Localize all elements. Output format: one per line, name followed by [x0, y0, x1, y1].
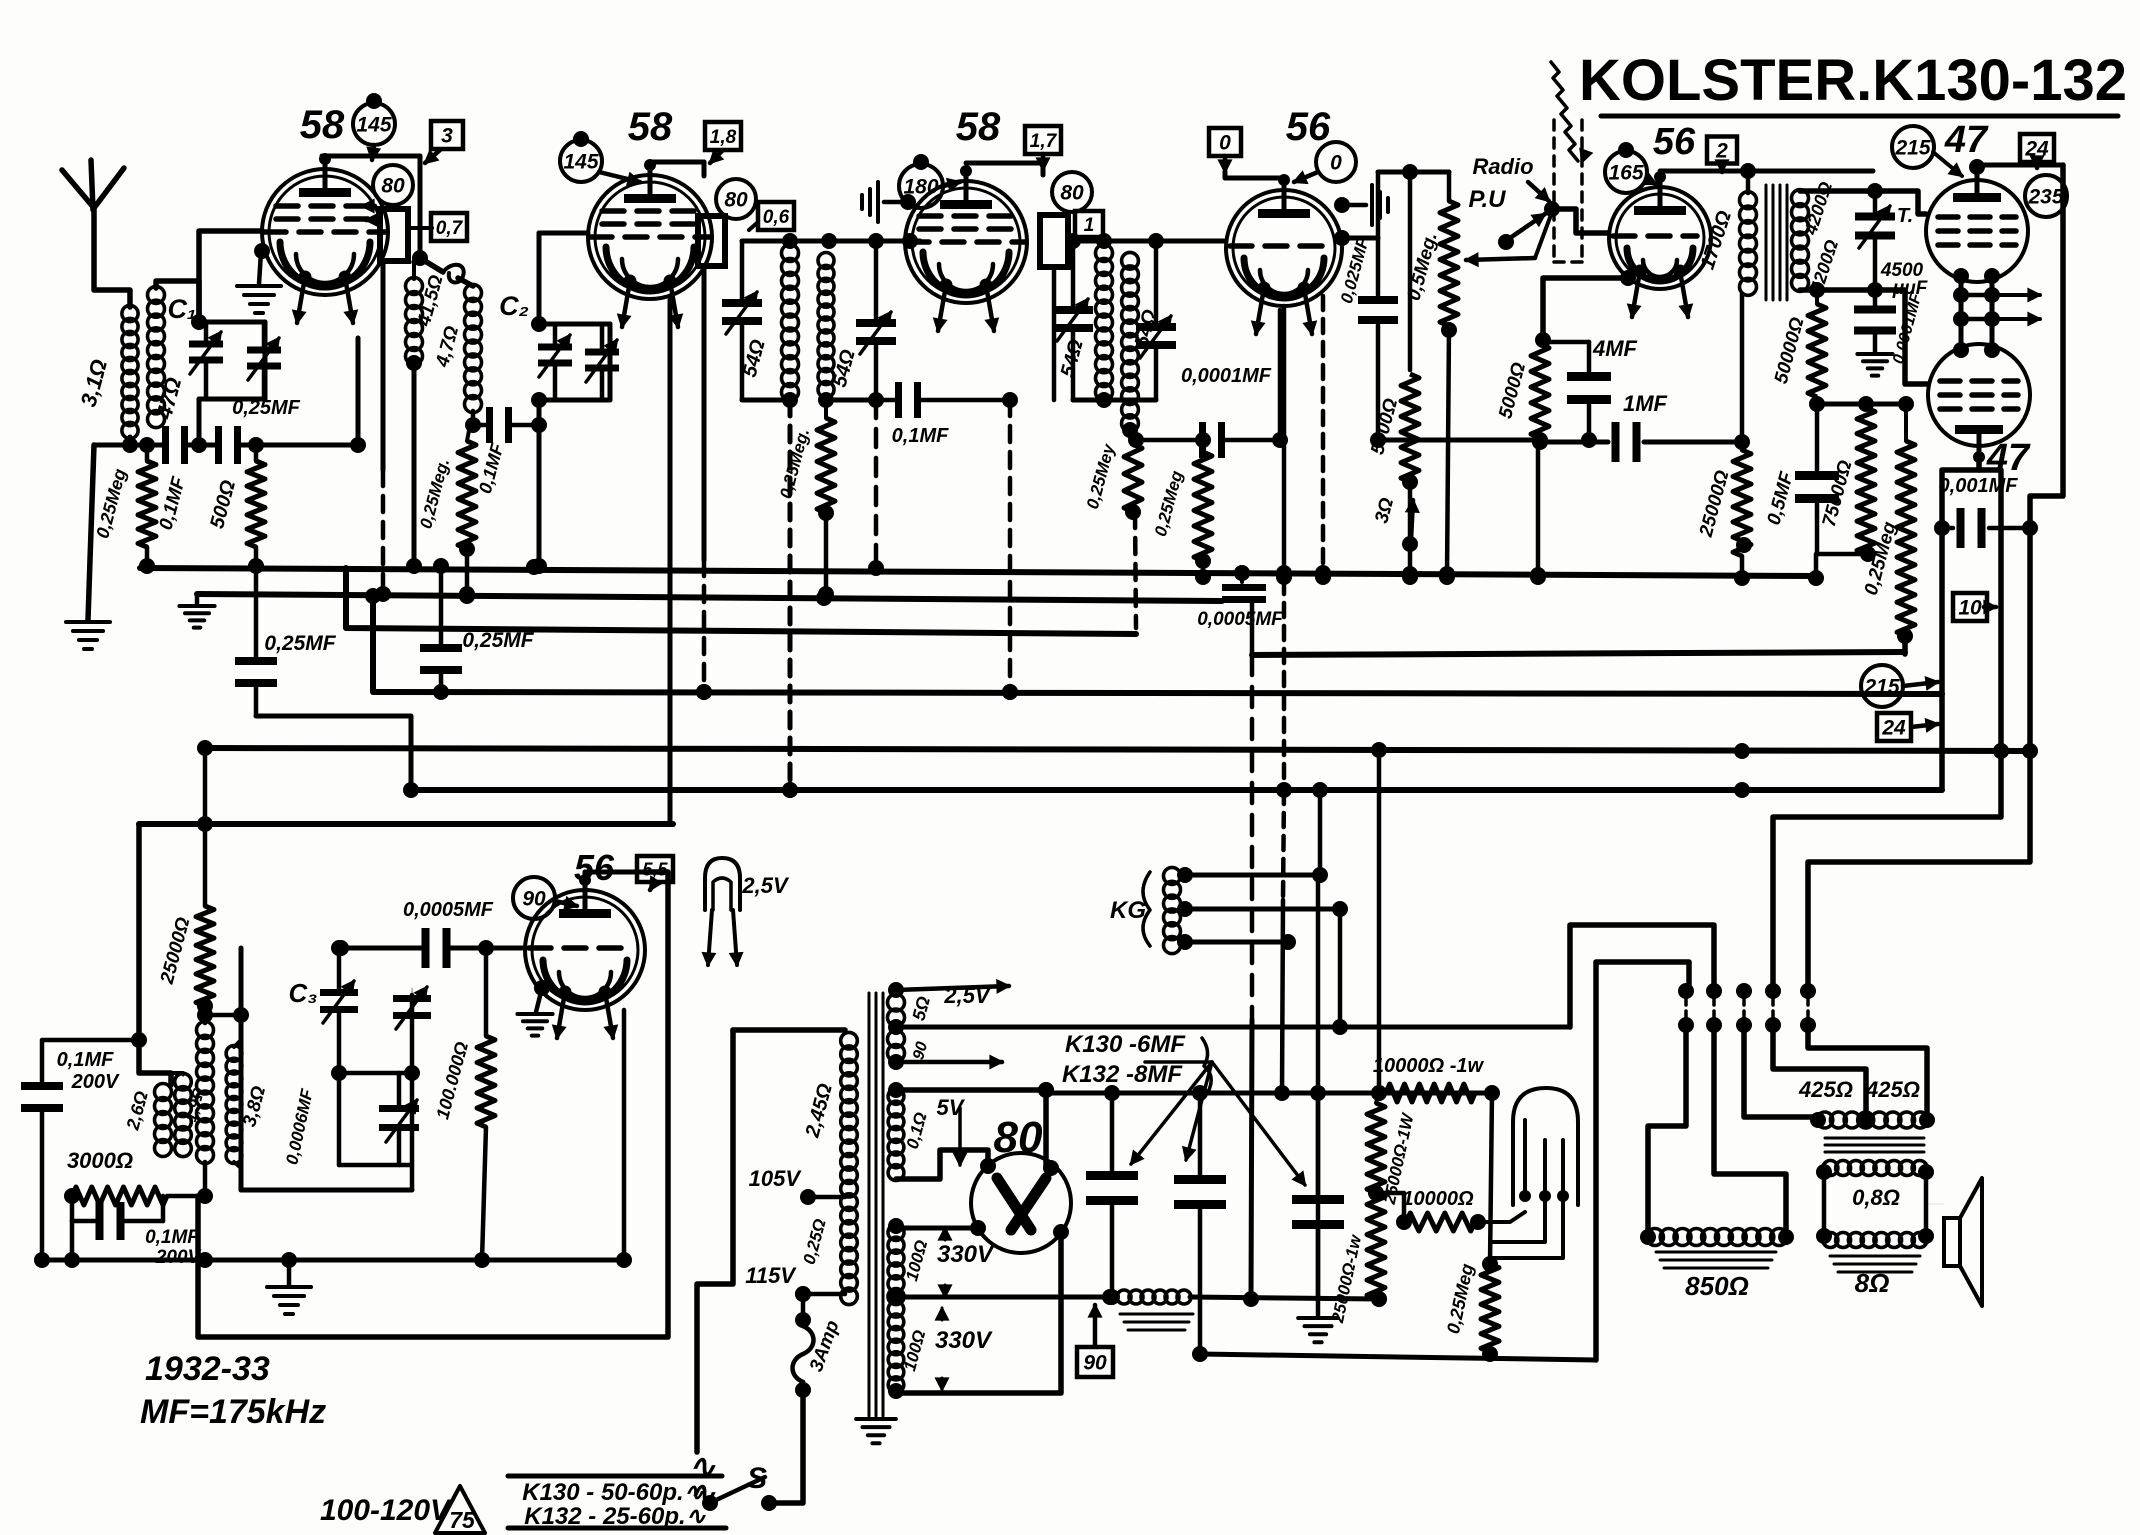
secondary winding lower — [888, 1031, 932, 1062]
coil L2 47 ohm (antenna secondary) — [148, 281, 200, 428]
svg-text:10: 10 — [1958, 597, 1982, 620]
wire riser B6 to filter — [1274, 790, 1290, 1101]
terminal circle 80 (V1 screen) — [373, 165, 413, 205]
wire L3 bottom to bus B1 — [406, 355, 422, 574]
resistor 5000 ohm (V4 bias) — [1367, 164, 1419, 585]
wire detector line y=442 — [1378, 432, 1548, 448]
tube V1 type 58 — [262, 153, 388, 323]
dial cord squiggle — [1551, 62, 1592, 162]
grid cap box V3 — [1040, 215, 1068, 267]
resistor 75000 ohm — [1817, 396, 1876, 562]
svg-text:MF=175kHz: MF=175kHz — [140, 1393, 326, 1431]
dial lamp 2,5V — [703, 858, 790, 965]
svg-text:215: 215 — [1894, 137, 1930, 160]
resistor 0,25Meg (V7 grid return) — [1861, 396, 1915, 654]
capacitor 0,0001MF (tone to ground) — [1854, 238, 1926, 366]
wire IF3 bottom — [1073, 344, 1156, 438]
svg-text:0,8Ω: 0,8Ω — [1852, 1185, 1900, 1210]
resistor 500 ohm (cathode bias) — [206, 445, 265, 574]
bus B3 left section — [346, 568, 1136, 634]
filter capacitor 1 (6/8MF) — [1086, 1085, 1138, 1305]
wire V1 plate top — [322, 154, 420, 159]
label 47 (V7) — [1986, 437, 2031, 479]
wire B7 corner down (osc block left) — [139, 824, 171, 1085]
resistor 25000 ohm (osc) — [157, 740, 214, 1023]
label 0,25 ohm — [800, 1217, 830, 1267]
mains lead left — [733, 1027, 845, 1033]
label 47 (V6) — [1944, 119, 1989, 161]
ground (V8 grid) — [517, 980, 552, 1036]
bottom bus (output return) — [1200, 1354, 1596, 1360]
capacitor 0,1MF 200V (left) — [21, 1032, 147, 1268]
svg-text:10000Ω: 10000Ω — [1402, 1188, 1474, 1210]
coil L6 54 ohm (IF2 secondary) — [818, 253, 860, 398]
coil 4200 ohm (secondary upper) — [1792, 179, 1843, 296]
wire V2 grid-box vertical to bus B4 — [696, 266, 712, 700]
svg-text:0,6: 0,6 — [763, 207, 790, 228]
triangle 75 (power) — [435, 1486, 485, 1533]
terminal circle 215 (lower) — [1861, 665, 1938, 707]
svg-text:1: 1 — [1084, 215, 1095, 236]
ground (tone cap) — [1857, 335, 1892, 376]
resistor 0,25Meg (IF2 grid leak) — [776, 400, 835, 602]
svg-text:P.U: P.U — [1469, 186, 1507, 213]
svg-text:0,001MF: 0,001MF — [1939, 475, 2019, 497]
label 58 (V3) — [956, 105, 1001, 149]
svg-text:2,5V: 2,5V — [943, 983, 992, 1008]
wire V5 cathode network — [1535, 270, 1636, 348]
ground (bus B2 left end) — [179, 594, 214, 628]
capacitor 0,25MF (series) — [215, 397, 301, 464]
svg-text:330V: 330V — [937, 1241, 995, 1268]
svg-text:10000Ω -1w: 10000Ω -1w — [1373, 1055, 1485, 1077]
svg-text:56: 56 — [1286, 105, 1331, 149]
svg-text:0: 0 — [1330, 152, 1342, 175]
variable capacitor (IF2 left) — [722, 241, 762, 400]
svg-text:100-120V: 100-120V — [320, 1494, 453, 1527]
wire B+ feed down — [1371, 751, 1387, 1101]
terminal box 3 (V1) — [425, 121, 463, 163]
svg-text:425Ω: 425Ω — [1865, 1077, 1920, 1102]
capacitor 0,025MF (V4 plate RF bypass) — [1334, 230, 1398, 448]
wire V8 top — [585, 872, 668, 878]
svg-text:235: 235 — [2027, 186, 2063, 209]
svg-text:3: 3 — [441, 125, 453, 148]
lamp wiring — [1478, 1196, 1563, 1258]
resistor 10000 ohm-1w — [1371, 1055, 1500, 1102]
tap 115V — [745, 1263, 845, 1302]
output transformer primary 425+425 ohm — [1798, 1077, 1935, 1152]
wire V8 cathode return — [616, 1010, 632, 1268]
wire V7 plate right branch — [1979, 470, 2009, 759]
filter capacitor 2 (6/8MF) — [1174, 1085, 1226, 1362]
resistor 0,25Meg (output bleeder) — [1443, 1093, 1499, 1362]
bus B2 (grid return) — [197, 588, 1222, 606]
resistor 25000 ohm-1w (upper) — [1367, 1093, 1418, 1207]
wire V2 cathode rail to B7 — [668, 300, 673, 824]
KG wire 3 — [1177, 934, 1296, 950]
wire C2 riser to T2 grid — [539, 233, 588, 324]
capacitor 1MF — [1540, 391, 1750, 462]
pilot lamp (dial) — [1513, 1088, 1578, 1205]
wire V4 top — [1225, 172, 1284, 178]
tube V6 type 47 (upper) — [1926, 163, 2028, 282]
wire speaker connection — [1926, 1203, 1944, 1205]
wire riser to T1 cathode — [350, 338, 366, 453]
wire V2 plate top — [650, 162, 704, 176]
wire V5 cathode to bus B1 — [1530, 442, 1546, 585]
resistor 5000 ohm (V5 cathode) — [1495, 344, 1549, 450]
label 58 (V1) — [300, 103, 345, 147]
svg-text:0: 0 — [1219, 132, 1231, 155]
mains ~ terminals — [689, 1448, 717, 1511]
svg-text:K132 - 25-60p.∿: K132 - 25-60p.∿ — [524, 1503, 706, 1530]
wire T1 plate to IF1 — [414, 258, 473, 286]
label Radio — [1472, 154, 1549, 201]
heater line 2,5V — [888, 1019, 1570, 1035]
wire V6 top to right rail — [1969, 159, 2063, 175]
wire cap to B6 — [256, 716, 411, 790]
label 56 (V4) — [1286, 105, 1331, 149]
svg-text:80: 80 — [994, 1113, 1043, 1162]
bus B5 (B+ line) — [205, 742, 2038, 759]
svg-text:0,25MF: 0,25MF — [462, 629, 534, 652]
terminal box 24 (V6) — [2020, 134, 2054, 168]
capacitor 0,1MF (IF1 coupling) — [473, 407, 547, 496]
wire B1/V4 riser to filter caps — [1310, 875, 1326, 1299]
svg-text:KG: KG — [1110, 897, 1146, 924]
terminal box 1,7 (V3) — [1025, 126, 1061, 170]
svg-text:75: 75 — [449, 1507, 476, 1533]
wire input line y445 — [94, 437, 358, 453]
label 56 (V8) — [574, 847, 615, 888]
wire detector grid riser — [1278, 310, 1283, 440]
bus B7 — [139, 816, 673, 832]
wire C2 bottom to bus B1 — [531, 400, 547, 574]
svg-text:105V: 105V — [749, 1166, 803, 1191]
wire IF2 bottom-left — [742, 392, 798, 408]
bus B3 right section — [1252, 652, 1905, 655]
capacitor 0,001MF — [1939, 475, 2038, 548]
terminal box 5,5 (V8) — [637, 856, 673, 890]
wire HV top to rectifier plate — [888, 1218, 986, 1236]
svg-text:330V: 330V — [935, 1327, 993, 1354]
wire C1 riser to T1 grid — [191, 231, 262, 330]
capacitor 0,1MF 200V (osc grid) — [72, 1196, 202, 1268]
wire HV center tap — [888, 1289, 1110, 1305]
tube V4 type 56 — [1226, 174, 1342, 334]
terminal circle 180 (V3) — [899, 154, 960, 208]
label K130-6MF K132-8MF — [1062, 1031, 1211, 1092]
terminal circle 145 (V2) — [560, 131, 640, 185]
tube V3 type 58 — [905, 165, 1027, 331]
label 58 (V2) — [628, 105, 673, 149]
coil KG (oscillator coupling) — [1110, 867, 1181, 953]
svg-text:K132 -8MF: K132 -8MF — [1062, 1061, 1183, 1088]
svg-text:C₂: C₂ — [499, 291, 529, 321]
svg-text:165: 165 — [1608, 162, 1643, 185]
wire B3 to filter — [1243, 655, 1259, 1307]
svg-text:58: 58 — [956, 105, 1001, 149]
svg-text:47: 47 — [1944, 119, 1989, 161]
capacitor 0,1MF (IF2 bypass) — [876, 382, 1018, 447]
wire IF2 top — [742, 233, 920, 249]
svg-text:56: 56 — [1653, 121, 1696, 163]
transformer core — [869, 993, 883, 1416]
antenna — [62, 160, 130, 307]
terminal circle 235 — [2025, 175, 2067, 217]
wire ground line y=1260 — [42, 1252, 624, 1268]
svg-text:4MF: 4MF — [1592, 336, 1638, 361]
svg-text:0,0001MF: 0,0001MF — [1181, 365, 1272, 387]
wire plug pin4 to output CT — [1773, 1025, 1866, 1112]
variable capacitor (IF3 left) — [1053, 241, 1093, 400]
tube V8 type 56 (oscillator) — [525, 874, 645, 1038]
svg-text:8Ω: 8Ω — [1855, 1268, 1890, 1298]
svg-text:58: 58 — [300, 103, 345, 147]
svg-text:0,1MF: 0,1MF — [145, 1227, 200, 1248]
coil L8 54 ohm (IF3 secondary) — [1122, 252, 1162, 431]
svg-text:1,8: 1,8 — [710, 127, 737, 148]
fuse 3Amp — [793, 1286, 844, 1398]
wire HV bottom to rectifier plate — [888, 1224, 1069, 1399]
terminal circle 145 (V1 plate voltage) — [353, 93, 395, 160]
ground (filter) — [1298, 1299, 1338, 1342]
wire osc block bottom left — [197, 1162, 213, 1204]
svg-text:0,0005MF: 0,0005MF — [403, 899, 494, 921]
svg-text:1MF: 1MF — [1623, 391, 1668, 416]
tube V7 type 47 (lower) — [1928, 344, 2030, 463]
svg-text:C₁: C₁ — [167, 294, 196, 324]
capacitor 0,0005MF (osc grid) — [333, 899, 523, 968]
grid cap box V2 — [698, 216, 725, 266]
arrow 25V output — [888, 1054, 1002, 1070]
svg-text:200V: 200V — [71, 1071, 120, 1093]
wire to bus B4 (IF2) — [1002, 400, 1018, 700]
wire plug pin5 to output transformer — [1808, 1025, 1927, 1117]
bus B1 (AVC line) — [140, 558, 1816, 583]
coil L1 3,1 ohm (antenna primary) — [76, 305, 139, 438]
svg-text:90: 90 — [522, 888, 546, 911]
wire B+ to plug pin4 — [1773, 751, 2001, 991]
terminal circle 80 (V2 screen) — [716, 179, 756, 219]
svg-text:145: 145 — [563, 151, 598, 174]
svg-text:80: 80 — [724, 189, 748, 212]
connector (5-pin plug) — [1678, 983, 1816, 1033]
wire plug pin3 to output transformer — [1744, 1025, 1818, 1117]
label 1932-33 — [145, 1350, 270, 1388]
KG wire 2 — [1177, 901, 1348, 917]
terminal circle 215 (V6) — [1892, 126, 1962, 176]
resistor 25000 ohm (bias divider) — [1696, 294, 1752, 586]
capacitor 0,1MF (series antenna) — [156, 426, 191, 532]
terminal box 10 — [1953, 593, 1996, 621]
svg-text:2: 2 — [1715, 140, 1728, 163]
tuning capacitor block C1 — [167, 294, 281, 453]
resistor 3000 ohm — [64, 1148, 198, 1205]
tube V2 type 58 — [588, 159, 712, 327]
tube V9 type 80 (rectifier) — [971, 1153, 1071, 1253]
variable capacitor 4500uuF (tone) — [1855, 191, 1929, 299]
ground (V3 shield, left) — [862, 182, 916, 222]
terminal circle 165 (V5) — [1605, 142, 1656, 193]
switch radio/PU — [1544, 201, 1608, 233]
capacitor 4MF (cathode bypass) — [1543, 336, 1638, 448]
wire rectifier output — [1038, 1082, 1492, 1098]
label 80 (V9) — [994, 1113, 1043, 1162]
ground (V1 cathode) — [237, 243, 281, 313]
svg-text:0,1MF: 0,1MF — [892, 425, 949, 447]
filament ladder V6-V7 — [1953, 268, 2000, 358]
terminal box 0 (V4) — [1209, 128, 1241, 172]
terminal box 1,8 (V2) — [705, 122, 741, 163]
wiper arrow (volume control) — [1466, 212, 1552, 266]
wire L5 bottom to bus B6 — [782, 400, 798, 798]
wire plug pin1 to field coil — [1648, 1025, 1686, 1237]
wire field to ground node — [1190, 1291, 1387, 1307]
terminal box 24 (lower) — [1877, 713, 1938, 741]
tap 105V — [749, 1166, 845, 1205]
loudspeaker — [1944, 1178, 1982, 1306]
mains left wire — [697, 1030, 733, 1452]
svg-text:0,7: 0,7 — [436, 218, 464, 239]
wire secondary top to V6 grid — [1800, 183, 1926, 214]
svg-text:425Ω: 425Ω — [1798, 1077, 1853, 1102]
terminal circle 0 (V4) — [1294, 142, 1356, 183]
svg-text:0,25MF: 0,25MF — [264, 632, 336, 655]
wire V4 cathode to bus B1 — [1276, 306, 1292, 585]
secondary 5V winding — [888, 1089, 966, 1181]
switch S — [702, 1390, 803, 1511]
right rail from V6 — [1808, 165, 2063, 991]
secondary 2,5V winding — [888, 994, 934, 1026]
svg-text:5,5: 5,5 — [642, 859, 668, 879]
coil L7 54 ohm (IF3 primary) — [1057, 245, 1113, 401]
heater arrows (to connector) — [1996, 289, 2040, 325]
bus B6 — [403, 782, 1942, 798]
grid cap box V1 — [362, 200, 432, 261]
wire plug pin2 to field coil — [1714, 1025, 1786, 1237]
wire 0,5MF bottom to bus B1 — [1808, 512, 1868, 586]
title KOLSTER K130-132 — [1579, 48, 2127, 116]
variable capacitor (IF2 right) — [856, 241, 896, 400]
svg-text:3000Ω: 3000Ω — [67, 1148, 133, 1173]
terminal box 0,6 (V2) — [749, 202, 794, 230]
HV winding 330V upper 100 ohm — [888, 1224, 995, 1304]
speaker loop right vertical — [1596, 962, 1689, 1360]
wire V1 box down to bus — [412, 156, 428, 266]
svg-text:C₃: C₃ — [289, 978, 318, 1008]
wire IF3 top — [1065, 233, 1226, 249]
wire 25000 to C3 — [205, 1007, 249, 1023]
label 100-120V — [320, 1494, 453, 1527]
svg-text:80: 80 — [381, 175, 405, 198]
capacitor 0,25MF (bus bypass right) — [420, 566, 535, 700]
svg-text:90: 90 — [1083, 1352, 1107, 1375]
potentiometer 0,5Meg (volume) — [1404, 172, 1458, 585]
coil 1700 ohm (interstage primary) — [1697, 171, 1757, 295]
resistor 0,25Meg (IF3 grid leak) — [1083, 430, 1142, 628]
terminal box 0,7 (V1 grid bias) — [431, 213, 467, 241]
wire 5V to rectifier — [888, 1082, 1059, 1179]
wire V4 pin to bus B1 — [1315, 296, 1331, 585]
bus B4 — [365, 588, 1942, 700]
heater feed riser — [1570, 925, 1714, 1027]
terminal box 1 (V3) — [1075, 211, 1103, 237]
coil 1,9 ohm (osc) — [171, 1073, 208, 1157]
svg-text:1932-33: 1932-33 — [145, 1350, 270, 1388]
terminal P.U (pick-up) — [1469, 186, 1545, 250]
ground (V4 shield, right) — [1334, 185, 1388, 225]
wire V7 plate down — [1934, 458, 1979, 790]
wire V4 detector riser to B6 — [1282, 580, 1287, 790]
ground (transformer core) — [856, 1419, 896, 1443]
KG wire 1 — [1177, 867, 1328, 883]
coil L5 54 ohm (IF2 primary) — [739, 245, 799, 401]
terminal circle 80 (V3 screen) — [1052, 172, 1092, 212]
svg-text:80: 80 — [1060, 182, 1084, 205]
output transformer secondary 0,8 ohm — [1816, 1161, 1934, 1299]
svg-text:145: 145 — [356, 114, 391, 137]
capacitor 0,0005MF (B2 to B1) — [1197, 565, 1284, 655]
wire IF2 bottom-right — [818, 392, 884, 408]
ground (antenna return) — [66, 445, 110, 649]
svg-text:1,7: 1,7 — [1030, 131, 1058, 152]
coil 2,6 ohm (osc) — [122, 1084, 171, 1157]
svg-text:24: 24 — [1881, 717, 1906, 740]
label 56 (V5) — [1653, 121, 1696, 163]
resistor 0,25Meg (under V4) — [1151, 432, 1212, 585]
terminal box 90 (B+ tap) — [1077, 1305, 1113, 1377]
resistor 0,25Meg (AVC input) — [92, 445, 156, 574]
label MF=175kHz — [140, 1393, 326, 1431]
capacitor 0,5MF — [1764, 404, 1839, 527]
wire V3 plate top — [966, 163, 1043, 175]
tap arrow 3 ohm — [1371, 495, 1418, 540]
wire osc left column — [64, 1221, 80, 1268]
wire V1 grid-box vertical to bus B2 — [375, 261, 391, 602]
resistor 50000 ohm — [1771, 282, 1826, 412]
variable capacitor (IF3 right) — [1136, 241, 1176, 358]
terminal circle 90 (V8) — [513, 877, 577, 919]
resistor 10000 ohm — [1376, 1188, 1486, 1231]
svg-text:K130 - 50-60p.∿: K130 - 50-60p.∿ — [522, 1479, 704, 1506]
terminal box 2 (V5) — [1707, 137, 1737, 173]
svg-text:T.: T. — [1897, 205, 1913, 227]
capacitor 0,0001MF (detector grid) — [1128, 365, 1288, 458]
wire KG1 to bus B6 — [1318, 790, 1323, 875]
dashed switch link — [1554, 120, 1582, 262]
arrows to filter caps — [1131, 1062, 1305, 1185]
resistor 25000 ohm-1w (lower) — [1328, 1193, 1387, 1325]
svg-text:56: 56 — [574, 847, 615, 888]
coil L4 4,7 ohm (IF1 secondary) — [432, 284, 482, 412]
tuning capacitor block C3 — [241, 940, 431, 1190]
wire V5 plate top y=171 — [1660, 163, 1873, 179]
speaker field choke — [1102, 1289, 1193, 1330]
svg-text:0,0005MF: 0,0005MF — [1197, 609, 1284, 630]
wire secondary bottom to V7 grid — [1800, 282, 1928, 384]
resistor 0,25Meg (IF1 grid leak) — [416, 417, 481, 602]
ground (osc) — [267, 1260, 311, 1314]
tuning capacitor block C2 — [499, 291, 619, 408]
svg-text:K130 -6MF: K130 -6MF — [1065, 1031, 1186, 1058]
filter capacitor 3 (6/8MF) — [1292, 1093, 1344, 1299]
svg-text:Radio: Radio — [1472, 154, 1533, 179]
arrow 2,5V — [888, 981, 1009, 1009]
coil L3 41,5 ohm (IF1 primary) — [406, 262, 448, 365]
svg-text:2,5V: 2,5V — [741, 873, 790, 898]
